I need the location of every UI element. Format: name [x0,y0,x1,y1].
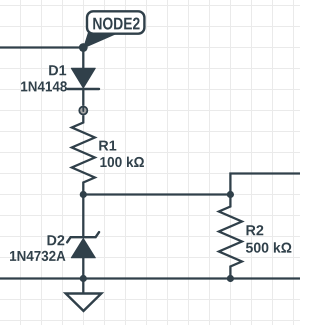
value 1N4732A [10,251,65,261]
junction dot node top [79,43,88,52]
label D1 [49,65,66,75]
label D2 [48,235,65,245]
wire mid horizontal [83,193,230,195]
value 500 kOhm [246,242,292,253]
resistor R1 [72,115,95,194]
label R1 [99,141,116,151]
resistor R2 [219,195,242,279]
junction dot mid-left [80,191,87,198]
label R2 [247,225,264,235]
node NODE2 callout flag [84,11,144,47]
value 100 kOhm [100,157,143,168]
wire top rail to node [0,46,83,48]
junction dot ground [80,275,87,282]
wire top-right corner into R2 [230,174,300,195]
ground [66,279,102,311]
wire bottom rail [0,277,300,279]
zener diode D2 [67,232,99,278]
junction dot R2 bottom [227,275,234,282]
terminal node D1-R1 [79,107,87,115]
value 1N4148 [21,81,67,91]
diode D1 [68,48,99,106]
junction dot R2 top [227,191,234,198]
wire junction to D2 [82,195,84,238]
